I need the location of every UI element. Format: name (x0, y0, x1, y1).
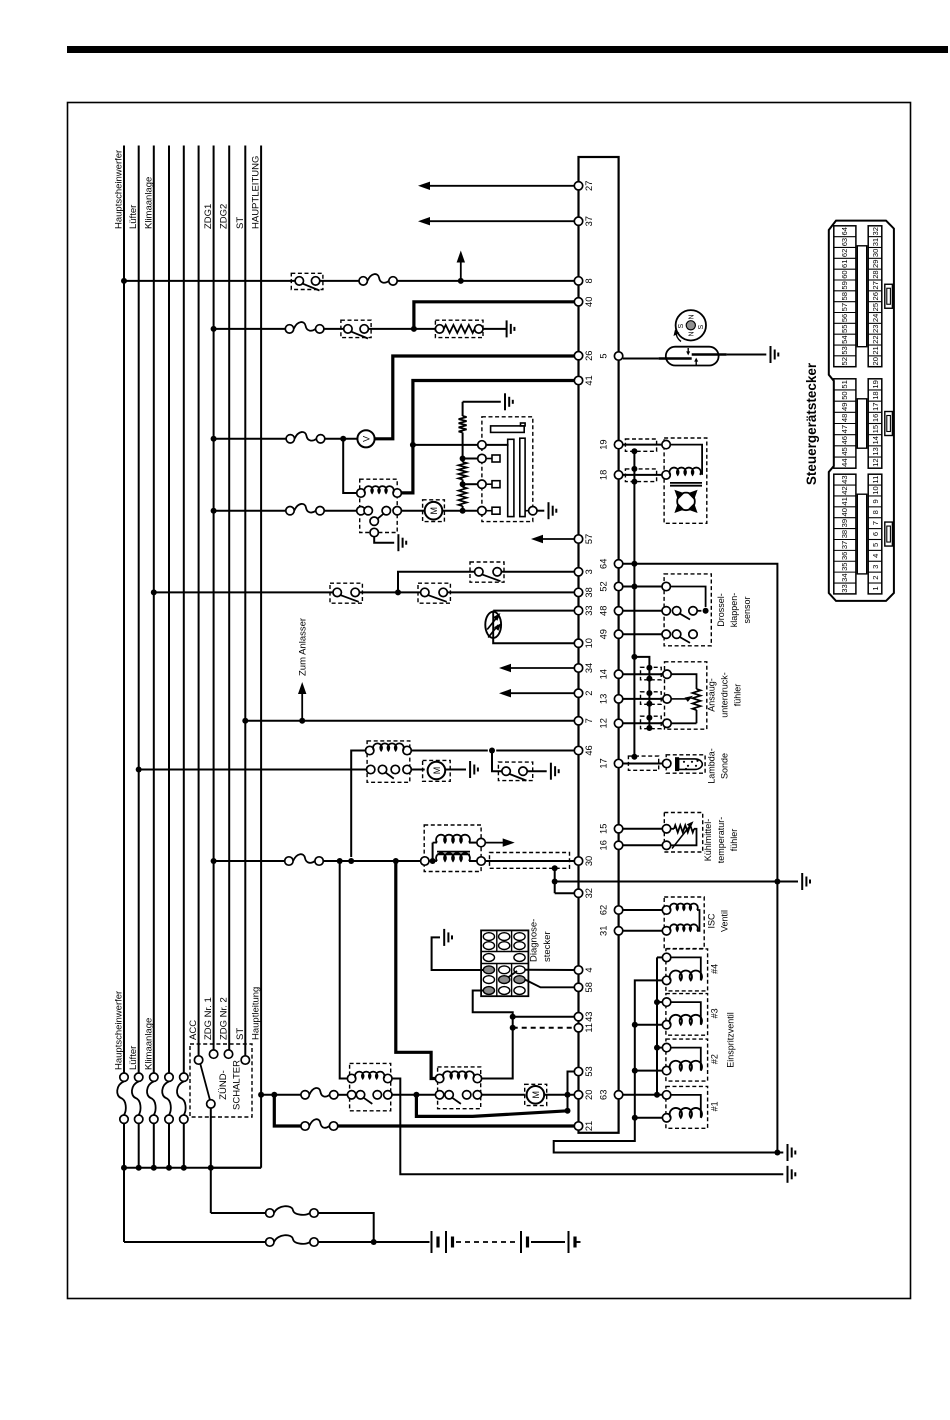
wire bus L8 ZDG2 (219, 146, 230, 1050)
svg-text:57: 57 (584, 534, 594, 544)
wire injector return bus (554, 980, 784, 1152)
label ZDG Nr. 2 (219, 997, 230, 1040)
reed switch S7 (659, 347, 727, 366)
svg-text:20: 20 (584, 1090, 594, 1100)
sensor R5 Kuehlmitteltemperaturfuehler (662, 813, 739, 864)
svg-text:28: 28 (871, 270, 880, 278)
wire T1 HT arrow (485, 838, 514, 846)
svg-text:31: 31 (599, 926, 609, 936)
pin 63 (599, 1090, 623, 1100)
fuse row 329 (285, 322, 324, 333)
shield box 17 (628, 756, 658, 770)
wire pin 49 row (623, 633, 662, 635)
label Einspritzventil (726, 1012, 736, 1068)
svg-text:11: 11 (584, 1023, 594, 1033)
pin 11 (574, 1023, 594, 1033)
wire pin 52 row (623, 586, 662, 588)
svg-text:45: 45 (840, 447, 849, 455)
pin 43 (574, 1012, 594, 1022)
wire K4 ground row (390, 1079, 783, 1175)
node lambda shield (631, 754, 637, 760)
svg-text:7: 7 (871, 521, 880, 525)
node shield bus j64 (631, 561, 637, 567)
svg-text:#4: #4 (710, 964, 720, 974)
wire pin 13 row (623, 698, 663, 700)
wire K5 coil feed vertical (396, 861, 436, 1079)
svg-text:12: 12 (871, 458, 880, 466)
wire distributor to pin 10 (493, 638, 574, 643)
svg-text:56: 56 (840, 314, 849, 322)
svg-text:14: 14 (599, 669, 609, 679)
wire bus L7 ZDG1 (203, 146, 214, 1050)
label Hauptscheinwerfer (bottom) (114, 991, 125, 1070)
svg-text:33: 33 (584, 605, 594, 615)
svg-text:ZDG1: ZDG1 (203, 204, 214, 229)
svg-text:11: 11 (871, 476, 880, 484)
svg-text:5: 5 (871, 543, 880, 547)
node inj1 top (654, 1092, 660, 1098)
node ladder n2 (460, 481, 466, 487)
wire K1 switch to ground (374, 537, 394, 543)
node pin43 j (510, 1014, 516, 1020)
node battery junction (371, 1239, 377, 1245)
ground fan (470, 761, 478, 778)
pin 13 (599, 694, 623, 704)
ground S6 (551, 763, 559, 780)
svg-text:N: N (689, 314, 696, 319)
switch S5 (418, 583, 450, 603)
resistor R1 (435, 320, 483, 337)
svg-text:Hauptscheinwerfer: Hauptscheinwerfer (114, 991, 125, 1070)
node bus L7 tap row439 (211, 436, 217, 442)
svg-text:Lüfter: Lüfter (128, 205, 139, 229)
pin 41 (574, 375, 594, 385)
label ST (bottom) (235, 1028, 246, 1040)
wire pin 17 row (623, 763, 663, 765)
node row329 junction (411, 326, 417, 332)
wire Zum Anlasser arrow (298, 618, 309, 721)
svg-text:temperatur-: temperatur- (716, 817, 726, 864)
node bus L2 tap (136, 767, 142, 773)
pin 46 (574, 745, 594, 755)
ground igniter (549, 502, 557, 519)
wire pin 16 row (623, 844, 663, 846)
injector Y1 Einspritzventil #1 (662, 1086, 719, 1128)
wire pin 34 arrow (499, 664, 574, 672)
svg-text:24: 24 (871, 314, 880, 322)
svg-text:47: 47 (840, 425, 849, 433)
pin 17 (599, 758, 623, 768)
svg-text:4: 4 (871, 554, 880, 558)
ground K4 (788, 1166, 796, 1183)
node shield18b (631, 479, 637, 485)
fuse row 511 (286, 504, 324, 515)
wire K5 coil to diagnostic (473, 991, 513, 1079)
pin 52 (599, 581, 623, 591)
svg-text:Hauptleitung: Hauptleitung (251, 987, 262, 1040)
svg-text:37: 37 (584, 216, 594, 226)
svg-text:32: 32 (871, 227, 880, 235)
wire R1 to ground (483, 328, 507, 330)
svg-text:31: 31 (871, 238, 880, 246)
wire Hauptleitung down (211, 1095, 261, 1168)
svg-text:51: 51 (840, 380, 849, 388)
svg-text:HAUPTLEITUNG: HAUPTLEITUNG (251, 156, 262, 229)
resistor R2 (459, 402, 467, 459)
svg-text:ZDG2: ZDG2 (219, 204, 230, 229)
shield box 13 (641, 690, 662, 707)
svg-text:46: 46 (840, 436, 849, 444)
ground reed (771, 346, 779, 363)
svg-text:30: 30 (584, 856, 594, 866)
wire pin 27 arrow (418, 182, 574, 190)
svg-text:Kühlmittel-: Kühlmittel- (703, 819, 713, 862)
pin 34 (574, 663, 594, 673)
svg-text:ISC: ISC (707, 913, 717, 929)
svg-text:43: 43 (584, 1012, 594, 1022)
svg-text:52: 52 (599, 581, 609, 591)
wire row pin 21 (274, 1095, 574, 1126)
shield box 14 (641, 665, 662, 682)
svg-text:16: 16 (599, 840, 609, 850)
wire pin 63 row (623, 1094, 663, 1096)
pin 12 (599, 718, 623, 728)
svg-text:Diagnose-: Diagnose- (529, 919, 540, 962)
pin 7 (574, 717, 594, 725)
switch S4 (330, 583, 362, 603)
wire K4 to K5 (392, 1094, 435, 1096)
svg-text:Ventil: Ventil (720, 910, 730, 932)
svg-text:39: 39 (840, 519, 849, 527)
svg-text:Einspritzventil: Einspritzventil (726, 1012, 736, 1068)
label Hauptleitung (bottom) (251, 987, 262, 1040)
svg-text:klappen-: klappen- (729, 593, 739, 628)
svg-text:15: 15 (599, 824, 609, 834)
wire row 329 (214, 328, 436, 330)
valve Y1 ISC (662, 897, 729, 949)
wire bus L2 Luefter (128, 146, 139, 1074)
svg-text:34: 34 (584, 663, 594, 673)
pin 53 (574, 1066, 594, 1076)
pin 33 (574, 605, 594, 615)
wire fuse1 to junction (318, 1213, 374, 1242)
node pin53 j (565, 1108, 571, 1114)
magnet rotor B2 (674, 310, 707, 341)
svg-text:26: 26 (871, 292, 880, 300)
svg-text:Steuergerätstecker: Steuergerätstecker (804, 362, 819, 485)
fuse bus line 3 (147, 1073, 158, 1168)
node ST rail (208, 1165, 214, 1171)
wire pin 48 row (623, 610, 662, 612)
svg-text:Klimaanlage: Klimaanlage (143, 177, 154, 229)
svg-text:44: 44 (840, 458, 849, 466)
svg-text:17: 17 (599, 758, 609, 768)
svg-text:2: 2 (584, 691, 594, 696)
fuse bus line 1 (117, 1073, 128, 1168)
node bus L7 tap row861 (211, 858, 217, 864)
wire diag ground (432, 937, 483, 970)
relay K1 (357, 479, 402, 537)
node MAP shield top (631, 654, 637, 660)
wire row pin 8 (124, 280, 574, 282)
wire pin 32 link (555, 892, 575, 894)
svg-text:20: 20 (871, 357, 880, 365)
svg-text:V: V (362, 436, 372, 442)
label ACC (188, 1020, 199, 1040)
wire pin 2 arrow (499, 689, 574, 697)
svg-text:M: M (531, 1091, 541, 1099)
svg-text:18: 18 (599, 470, 609, 480)
wire bus L1 Hauptscheinwerfer (114, 146, 125, 1074)
wire pin 14 row (623, 673, 663, 675)
pin 4 (574, 966, 594, 974)
node row861 j3 (393, 858, 399, 864)
wire reed to ground (727, 354, 767, 356)
svg-text:stecker: stecker (542, 931, 553, 962)
svg-text:Lambda-: Lambda- (707, 748, 717, 784)
fuse row 861 (285, 854, 324, 865)
svg-text:62: 62 (840, 249, 849, 257)
pin 27 (574, 181, 594, 191)
svg-text:5: 5 (599, 353, 609, 358)
svg-text:sensor: sensor (742, 596, 752, 623)
svg-text:ZDG Nr. 1: ZDG Nr. 1 (203, 997, 214, 1040)
svg-text:63: 63 (599, 1090, 609, 1100)
ground row 881 (802, 873, 810, 890)
wire pin 15 row (623, 828, 663, 830)
wire row pin 7 (245, 720, 574, 722)
svg-text:2: 2 (871, 575, 880, 579)
node pin41 vertical junction (410, 442, 416, 448)
svg-text:3: 3 (584, 569, 594, 574)
svg-text:17: 17 (871, 403, 880, 411)
pin 8 (574, 277, 594, 285)
node inj3 top (654, 999, 660, 1005)
transducer B1 crank sensor (485, 612, 501, 638)
wire ladder taps (463, 459, 478, 485)
svg-text:ACC: ACC (188, 1020, 199, 1040)
pin 20 (574, 1090, 594, 1100)
relay K4 (347, 1063, 392, 1110)
svg-text:37: 37 (840, 541, 849, 549)
wire pin 37 arrow (418, 217, 574, 225)
pin 58 (574, 982, 594, 992)
shield box pin 19 (625, 439, 656, 451)
node ladder n1 (460, 456, 466, 462)
wire shield drop (554, 868, 556, 893)
label Luefter (bottom) (128, 1046, 139, 1070)
ground ladder (505, 393, 513, 410)
shield box 12 (641, 715, 662, 731)
svg-text:unterdruck-: unterdruck- (720, 672, 730, 718)
svg-text:54: 54 (840, 335, 849, 343)
node rail L1 (121, 1165, 127, 1171)
svg-text:#2: #2 (710, 1054, 720, 1064)
switch S6 (498, 762, 532, 781)
svg-text:38: 38 (584, 587, 594, 597)
wire row fan (139, 769, 466, 771)
node bus L9 tap (242, 718, 248, 724)
wire row46 branch switch (492, 751, 547, 772)
wire row 439 (214, 438, 358, 440)
node shield19 (631, 448, 637, 454)
node inj1 bottom (632, 1115, 638, 1121)
pin 31 (599, 926, 623, 936)
svg-text:62: 62 (599, 905, 609, 915)
svg-text:ZDG Nr. 2: ZDG Nr. 2 (219, 997, 230, 1040)
wire row pin 46 (351, 751, 574, 858)
wire MAP shield chain (648, 664, 650, 729)
svg-text:52: 52 (840, 357, 849, 365)
wire K5 to fuel pump (482, 1094, 525, 1096)
wire ST to battery fuse (211, 1212, 266, 1214)
node bus L7 tap row329 (211, 326, 217, 332)
wire row8 up arrow (457, 251, 465, 281)
node rail L5 (181, 1165, 187, 1171)
wire ladder top to ground (463, 401, 501, 403)
node row38 junction (395, 589, 401, 595)
svg-text:38: 38 (840, 530, 849, 538)
wire main row (261, 1094, 347, 1096)
svg-text:#3: #3 (710, 1008, 720, 1018)
svg-text:16: 16 (871, 414, 880, 422)
node rail L2 (136, 1165, 142, 1171)
node row46 junction (489, 748, 495, 754)
svg-text:49: 49 (599, 629, 609, 639)
node shield18a (631, 466, 637, 472)
pin 62 (599, 905, 623, 915)
resistor R4 (459, 484, 467, 511)
pin 21 (574, 1121, 594, 1131)
svg-text:Klimaanlage: Klimaanlage (143, 1018, 154, 1070)
svg-text:61: 61 (840, 260, 849, 268)
svg-text:Sonde: Sonde (720, 753, 730, 779)
wire diag to pin 4 (508, 970, 574, 978)
svg-text:63: 63 (840, 238, 849, 246)
wire shield bus vertical (633, 451, 635, 756)
svg-text:Lüfter: Lüfter (128, 1046, 139, 1070)
wire pump to pin 20 (544, 1094, 574, 1096)
svg-text:14: 14 (871, 436, 880, 444)
fuse bus line 4 (162, 1073, 173, 1168)
pin 14 (599, 669, 623, 679)
svg-text:55: 55 (840, 325, 849, 333)
svg-text:8: 8 (584, 278, 594, 283)
svg-text:41: 41 (584, 375, 594, 385)
wire bus L5 (183, 146, 185, 1074)
resistor R3 (459, 459, 467, 485)
svg-text:50: 50 (840, 391, 849, 399)
pin 18 (599, 470, 623, 480)
svg-text:Drossel-: Drossel- (716, 593, 726, 627)
switch S2 (341, 320, 371, 338)
transformer T1 ignition coil (421, 825, 486, 872)
svg-text:43: 43 (840, 475, 849, 483)
switch S3 (470, 562, 504, 582)
svg-text:S: S (698, 324, 705, 329)
wire row pin 3 (398, 572, 574, 593)
svg-text:60: 60 (840, 270, 849, 278)
ground diag (444, 929, 452, 946)
svg-text:8: 8 (871, 510, 880, 514)
wire pin 57 arrow (531, 535, 574, 543)
injector Y3 Einspritzventil #3 (662, 994, 719, 1036)
wire igniter supply (413, 444, 478, 446)
op-amp U1 Steuergeraet ECU box (579, 157, 619, 1133)
wire T1 to pin 30 shielded (485, 853, 574, 869)
svg-text:34: 34 (840, 573, 849, 581)
svg-text:Hauptscheinwerfer: Hauptscheinwerfer (114, 150, 125, 229)
unit T2 coil-distributor (662, 438, 707, 523)
switch S8 Zuendschalter (190, 1044, 252, 1117)
wire bypass slant (416, 1095, 567, 1117)
wire pin 33 to distributor (493, 611, 574, 612)
wire ignition ST down (210, 1108, 212, 1213)
node bus L3 tap (151, 589, 157, 595)
svg-text:53: 53 (584, 1066, 594, 1076)
node rail L4 (166, 1165, 172, 1171)
node Zum Anlasser junction (299, 718, 305, 724)
node L10 main tap (258, 1092, 264, 1098)
svg-text:58: 58 (584, 982, 594, 992)
pin 5 (599, 352, 623, 360)
injector Y4 Einspritzventil #4 (662, 949, 719, 991)
svg-text:1: 1 (871, 586, 880, 590)
svg-text:SCHALTER: SCHALTER (232, 1060, 243, 1110)
node row861 j1 (337, 858, 343, 864)
svg-text:13: 13 (871, 447, 880, 455)
svg-text:19: 19 (871, 380, 880, 388)
fuse bus line 5 (177, 1073, 188, 1168)
svg-text:10: 10 (871, 486, 880, 494)
svg-text:ST: ST (235, 1028, 246, 1040)
wire bus L10 Hauptleitung (251, 146, 262, 1095)
svg-text:21: 21 (584, 1121, 594, 1131)
motor M3 fuel pump (525, 1084, 547, 1105)
svg-text:59: 59 (840, 281, 849, 289)
battery BAT1 (432, 1231, 581, 1253)
wire pin 43 row (513, 1016, 575, 1018)
pin 37 (574, 216, 594, 226)
wire pin 19 row (623, 444, 662, 446)
svg-text:46: 46 (584, 745, 594, 755)
svg-text:M: M (432, 767, 442, 775)
pin 19 (599, 439, 623, 449)
svg-text:Ansaug-: Ansaug- (707, 678, 717, 712)
svg-text:41: 41 (840, 497, 849, 505)
svg-text:9: 9 (871, 499, 880, 503)
svg-text:3: 3 (871, 565, 880, 569)
svg-text:Zum Anlasser: Zum Anlasser (298, 618, 309, 676)
svg-text:ZÜND-: ZÜND- (218, 1070, 229, 1100)
wire bus L4 (168, 146, 170, 1074)
svg-text:40: 40 (840, 508, 849, 516)
svg-text:42: 42 (840, 486, 849, 494)
node pin20 j (565, 1092, 571, 1098)
svg-text:29: 29 (871, 260, 880, 268)
svg-text:36: 36 (840, 552, 849, 560)
fuse bus line 2 (132, 1073, 143, 1168)
svg-text:12: 12 (599, 718, 609, 728)
svg-text:53: 53 (840, 346, 849, 354)
sensor U4 Ansaugunterdruckfuehler (663, 662, 743, 729)
node ladder n3 (460, 508, 466, 514)
fuse row 439 (286, 432, 325, 443)
svg-text:23: 23 (871, 325, 880, 333)
node row8 junction (458, 278, 464, 284)
node inj2 top (654, 1045, 660, 1051)
wire pin 5 row (623, 358, 659, 360)
